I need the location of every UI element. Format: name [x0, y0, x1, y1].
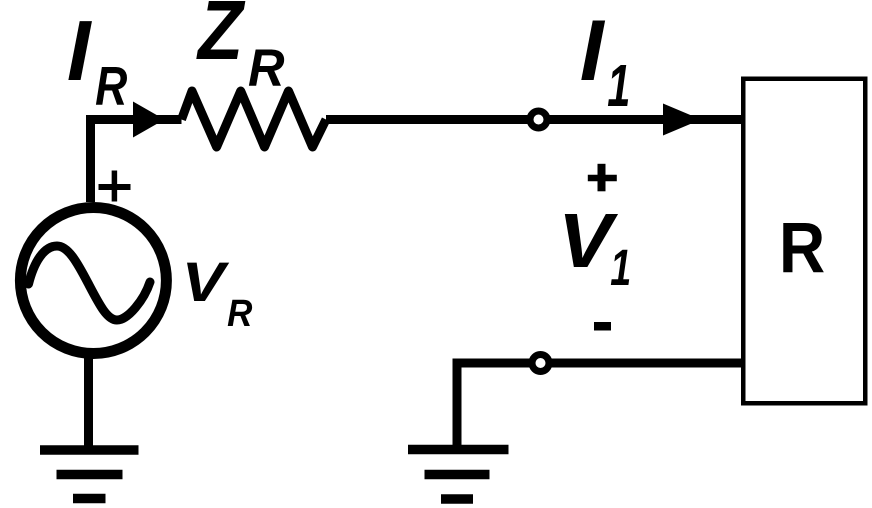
svg-text:R: R	[95, 56, 127, 118]
svg-text:R: R	[248, 38, 285, 97]
svg-text:R: R	[779, 209, 825, 288]
svg-text:1: 1	[607, 53, 630, 119]
svg-text:1: 1	[610, 238, 631, 296]
svg-text:I: I	[67, 4, 93, 99]
svg-text:V: V	[558, 197, 619, 283]
svg-text:V: V	[182, 250, 230, 313]
svg-text:Z: Z	[196, 0, 245, 77]
svg-text:R: R	[227, 292, 253, 335]
svg-text:I: I	[580, 3, 606, 99]
